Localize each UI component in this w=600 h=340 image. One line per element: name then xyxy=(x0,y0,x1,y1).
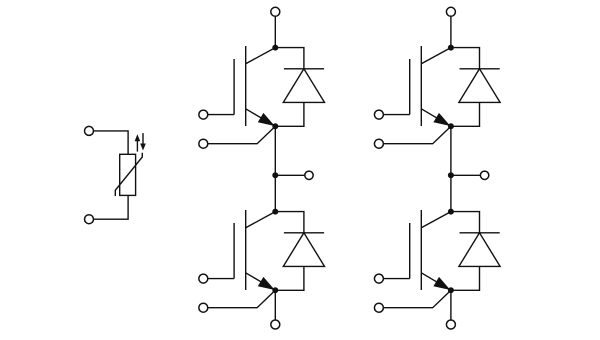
IGBT Q1 emitter lead with arrow xyxy=(246,109,276,127)
diode D2 cathode bar xyxy=(284,232,324,234)
IGBT Q1 gate bar xyxy=(233,59,235,115)
wire: gate terminal G4 to gate bar xyxy=(383,278,409,280)
thermistor NTC terminal 1 (top) xyxy=(85,126,94,135)
IGBT Q3 emitter lead with arrow xyxy=(421,109,451,127)
IGBT Q2 emitter lead with arrow xyxy=(246,273,276,291)
IGBT Q4 collector lead xyxy=(421,212,451,228)
node: collector junction of Q3 xyxy=(448,45,454,51)
wire: aux emitter terminal E4A to emitter node xyxy=(383,290,451,307)
wire: gate terminal G3 to gate bar xyxy=(383,114,409,116)
diode D1 cathode bar xyxy=(284,68,324,70)
node: phase midpoint junction xyxy=(448,172,454,178)
terminal P1 (DC+ collector) xyxy=(271,7,280,16)
node: emitter junction of Q3 xyxy=(448,123,454,129)
wire: diode D4 anode to emitter node xyxy=(451,266,480,290)
wire: aux emitter terminal E2A to emitter node xyxy=(208,290,275,307)
thermistor up arrow xyxy=(135,134,141,151)
node: emitter junction of Q4 xyxy=(448,287,454,293)
thermistor NTC body (rectangle) xyxy=(120,154,136,195)
wire: collector node to diode D1 cathode xyxy=(275,48,304,69)
diode D3 anode triangle xyxy=(459,69,500,103)
wire: lower emitter node to terminal N2 xyxy=(450,290,452,320)
IGBT Q3 collector lead xyxy=(421,48,451,64)
IGBT Q2 gate bar xyxy=(233,223,235,279)
wire: aux emitter terminal E3A to emitter node xyxy=(383,126,451,143)
terminal AC2 (AC output) xyxy=(480,171,488,179)
wire: gate terminal G2 to gate bar xyxy=(208,278,234,280)
node: phase midpoint junction xyxy=(272,172,278,178)
thermistor diagonal stroke xyxy=(115,153,142,196)
wire: collector node to diode D2 cathode xyxy=(275,212,304,233)
terminal E4A (aux emitter of Q4) xyxy=(374,303,383,312)
wire: upper emitter node to midpoint node xyxy=(450,126,452,175)
node: collector junction of Q2 xyxy=(272,209,278,215)
diode D4 cathode bar xyxy=(460,232,500,234)
wire: diode D2 anode to emitter node xyxy=(275,266,304,290)
terminal E3A (aux emitter of Q3) xyxy=(374,139,383,148)
IGBT Q4 gate bar xyxy=(409,223,411,279)
wire: midpoint node to lower collector node xyxy=(450,175,452,211)
wire: terminal P1 to collector node xyxy=(274,16,276,47)
terminal N1 (DC- emitter) xyxy=(271,320,280,329)
IGBT Q1 body bar xyxy=(245,46,247,126)
IGBT Q3 gate bar xyxy=(409,59,411,115)
terminal E2A (aux emitter of Q2) xyxy=(199,303,208,312)
IGBT Q4 emitter lead with arrow xyxy=(421,273,451,291)
thermistor down arrow xyxy=(140,133,146,150)
node: emitter junction of Q1 xyxy=(272,123,278,129)
terminal N2 (DC- emitter) xyxy=(446,320,455,329)
IGBT Q2 body bar xyxy=(245,210,247,290)
IGBT Q4 body bar xyxy=(420,210,422,290)
wire: aux emitter terminal E1A to emitter node xyxy=(208,126,275,143)
diode D4 anode triangle xyxy=(459,233,500,267)
wire: gate terminal G1 to gate bar xyxy=(208,114,234,116)
thermistor NTC terminal 2 (bottom) xyxy=(85,215,94,224)
wire: thermistor top terminal to resistor body xyxy=(94,131,129,154)
terminal G4 (gate of Q4) xyxy=(374,274,383,283)
node: collector junction of Q1 xyxy=(272,45,278,51)
wire: diode D1 anode to emitter node xyxy=(275,102,304,126)
wire: midpoint node to terminal AC2 xyxy=(451,174,480,176)
wire: midpoint node to lower collector node xyxy=(274,175,276,211)
wire: resistor body to thermistor bottom terminal xyxy=(94,195,129,219)
diode D1 anode triangle xyxy=(283,69,324,103)
terminal E1A (aux emitter of Q1) xyxy=(199,139,208,148)
IGBT Q1 collector lead xyxy=(246,48,276,64)
wire: lower emitter node to terminal N1 xyxy=(274,290,276,320)
terminal G2 (gate of Q2) xyxy=(199,274,208,283)
IGBT Q2 collector lead xyxy=(246,212,276,228)
wire: collector node to diode D4 cathode xyxy=(451,212,480,233)
IGBT Q3 body bar xyxy=(420,46,422,126)
wire: upper emitter node to midpoint node xyxy=(274,126,276,175)
diode D3 cathode bar xyxy=(460,68,500,70)
wire: midpoint node to terminal AC1 xyxy=(275,174,304,176)
wire: collector node to diode D3 cathode xyxy=(451,48,480,69)
diode D2 anode triangle xyxy=(283,233,324,267)
terminal AC1 (AC output) xyxy=(305,171,313,179)
wire: diode D3 anode to emitter node xyxy=(451,102,480,126)
node: collector junction of Q4 xyxy=(448,209,454,215)
node: emitter junction of Q2 xyxy=(272,287,278,293)
terminal P2 (DC+ collector) xyxy=(446,7,455,16)
terminal G3 (gate of Q3) xyxy=(374,110,383,119)
terminal G1 (gate of Q1) xyxy=(199,110,208,119)
wire: terminal P2 to collector node xyxy=(450,16,452,47)
